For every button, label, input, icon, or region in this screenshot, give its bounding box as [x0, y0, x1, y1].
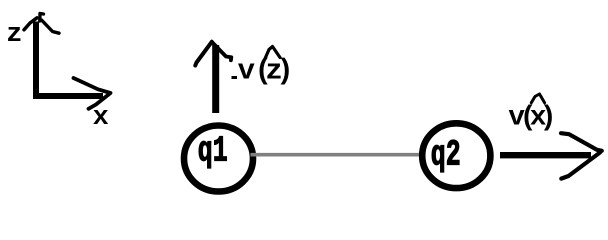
- wire connecting line q1-q2: [251, 153, 433, 157]
- svg-text:(x): (x): [520, 103, 557, 134]
- charge q1 circle: [184, 126, 253, 192]
- x-axis arrowhead: [74, 78, 111, 109]
- hat over z: [266, 47, 281, 58]
- svg-text:q2: q2: [431, 135, 461, 176]
- wire z-axis shaft: [33, 22, 39, 100]
- svg-text:v: v: [238, 54, 255, 87]
- hat over x: [531, 94, 544, 103]
- z-axis arrowhead: [24, 18, 37, 30]
- svg-text:x: x: [93, 103, 109, 133]
- svg-text:z: z: [6, 20, 22, 50]
- wire x-axis shaft: [33, 93, 103, 99]
- svg-text:q1: q1: [198, 132, 228, 173]
- wire v2 arrow shaft (rightward velocity of q2): [500, 152, 591, 158]
- svg-text:(z): (z): [255, 54, 294, 87]
- small dash mark: [232, 76, 238, 79]
- charge q2 circle: [422, 123, 490, 188]
- v1 arrowhead: [195, 42, 212, 66]
- wire v1 arrow shaft (upward velocity of q1): [212, 45, 219, 113]
- v2 arrowhead: [561, 133, 602, 151]
